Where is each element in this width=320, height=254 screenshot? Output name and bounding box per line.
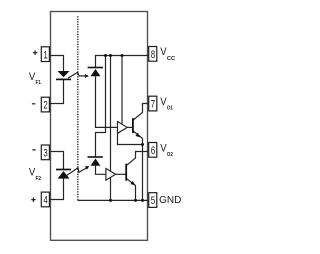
svg-text:F2: F2 bbox=[36, 176, 41, 182]
svg-text:6: 6 bbox=[151, 145, 155, 157]
svg-text:2: 2 bbox=[43, 100, 47, 112]
svg-text:O2: O2 bbox=[167, 152, 173, 158]
svg-text:O1: O1 bbox=[167, 106, 173, 112]
svg-text:4: 4 bbox=[43, 195, 47, 207]
svg-text:3: 3 bbox=[43, 148, 47, 160]
svg-text:1: 1 bbox=[43, 49, 47, 61]
svg-text:CC: CC bbox=[167, 56, 175, 62]
svg-text:8: 8 bbox=[151, 49, 155, 61]
svg-text:7: 7 bbox=[151, 99, 155, 111]
svg-text:F1: F1 bbox=[36, 80, 41, 86]
svg-text:5: 5 bbox=[151, 195, 155, 207]
svg-text:GND: GND bbox=[159, 194, 182, 206]
